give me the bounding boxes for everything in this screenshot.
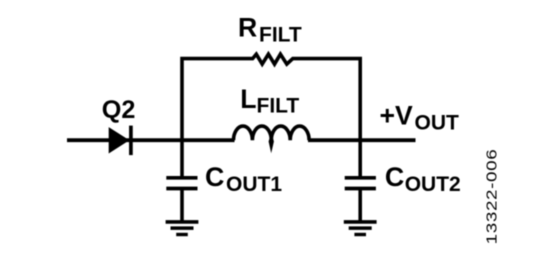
inductor L_FILT humps <box>234 126 310 140</box>
svg-text:C: C <box>205 162 224 192</box>
svg-text:Q2: Q2 <box>102 96 136 124</box>
wire: left cap top lead <box>180 140 184 178</box>
capacitor C_OUT2 top plate <box>345 176 376 180</box>
ground (left) bar 2 <box>171 226 194 230</box>
ground (right) bar 3 <box>354 233 366 236</box>
ground (left) bar 3 <box>176 233 188 236</box>
inductor L_FILT center tap spike <box>269 137 274 154</box>
ground (right) bar 1 <box>344 220 377 224</box>
svg-text:OUT1: OUT1 <box>226 173 282 196</box>
svg-text:OUT2: OUT2 <box>405 173 461 196</box>
wire: main horizontal rail (input to inductor) <box>67 138 235 142</box>
svg-text:FILT: FILT <box>259 24 302 47</box>
svg-text:13322-006: 13322-006 <box>483 149 500 245</box>
ground (left) bar 1 <box>166 220 199 224</box>
ground (right) bar 2 <box>349 226 372 230</box>
svg-text:OUT: OUT <box>415 111 460 134</box>
wire: left branch up, top rail with resistor body gap <box>182 54 360 140</box>
wire: right cap top lead <box>358 140 362 178</box>
svg-text:R: R <box>238 12 257 42</box>
capacitor C_OUT1 top plate <box>166 176 197 180</box>
capacitor C_OUT1 bottom plate <box>166 187 197 191</box>
capacitor C_OUT2 bottom plate <box>345 187 376 191</box>
diode Q2 cathode bar <box>129 126 133 156</box>
wire: main horizontal rail (inductor to output) <box>308 138 416 142</box>
svg-text:C: C <box>385 162 404 192</box>
svg-text:L: L <box>240 84 256 114</box>
svg-text:FILT: FILT <box>257 94 300 117</box>
wire: left cap bottom lead <box>180 189 184 222</box>
svg-text:+V: +V <box>380 100 414 130</box>
diode Q2 (body diode) triangle <box>109 127 130 153</box>
wire: right cap bottom lead <box>358 189 362 222</box>
